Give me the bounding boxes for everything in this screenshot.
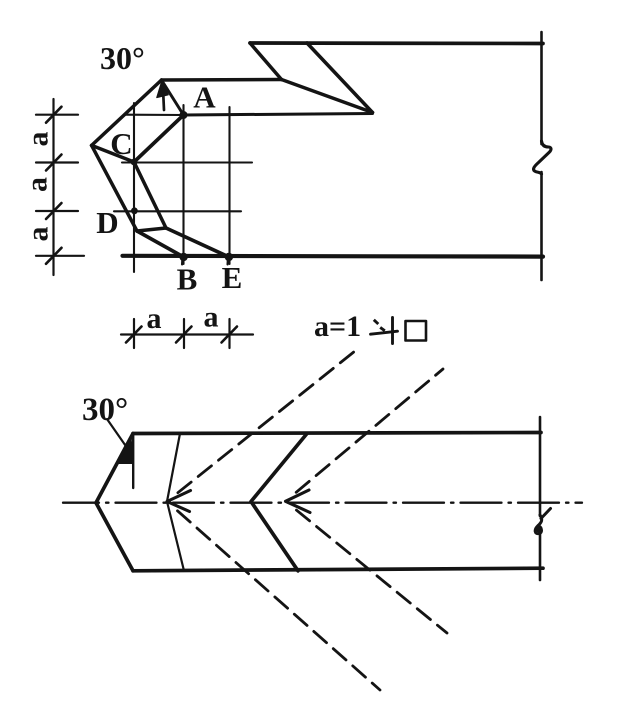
bottom dim tick 3 [222,319,238,348]
vertical grid line 1 [133,103,135,272]
top edge (plan) [133,433,541,434]
break mark on right edge (plan) [535,509,550,534]
notch diagonal L3 [307,43,373,113]
node A [180,111,188,119]
svg-text:A: A [193,80,216,115]
arrow head 2 on centre line [286,490,311,513]
inner vertical at bevel [132,434,134,489]
bottom dimension line [121,333,253,335]
character kou [406,321,427,341]
connector P1 to P2 [137,228,166,231]
arrow head 1 on centre line [167,491,191,512]
dashed ray 1 (up-right from arrow 1) [178,347,360,493]
svg-text:30°: 30° [100,40,145,76]
bottom edge (plan) [133,568,543,571]
horizontal grid line 1 [124,114,183,116]
notch diagonal L1 [250,43,282,80]
diagonal A to C [134,115,184,162]
stub below E [226,257,229,265]
character dou [371,318,398,344]
right edge (plan) [539,417,542,580]
right edge of beam [540,32,543,280]
dashed ray 2 (up-right from arrow 2) [296,369,443,492]
svg-text:a=1: a=1 [314,310,361,343]
dashed ray 4 (down-right from arrow 2) [296,510,447,633]
profile P1 to B [137,231,184,257]
svg-text:a: a [204,301,219,334]
break mark on right edge (top figure) [534,141,552,174]
vertical grid line 2 [182,105,184,264]
arrow pointing up at apex [157,81,168,111]
bottom dim tick 1 [126,319,142,348]
stub below B [181,257,184,265]
svg-text:C: C [110,126,132,161]
profile P2 to E [166,228,229,257]
left dimension line [52,99,54,275]
outer steep profile line to P1 [92,145,137,231]
svg-text:E: E [222,260,243,295]
inner steep line C to P2 [134,162,166,228]
node E [225,253,233,261]
upper left slope (plan) [96,434,133,503]
vertical grid line 3 [228,107,230,264]
svg-text:a: a [21,177,54,192]
filled 30 degree wedge [119,437,134,464]
node D [131,207,138,214]
svg-text:B: B [177,262,198,297]
bottom dim tick 2 [176,319,192,348]
svg-text:30°: 30° [82,392,128,428]
leader line for 30 degrees [107,419,127,447]
thin chevron 1 [167,434,184,571]
centre line (dash-dot) [63,502,582,504]
left dim tick 2 [36,155,78,171]
notch diagonal L2 [282,80,373,113]
dashed ray 3 (down-right from arrow 1) [178,511,381,690]
horizontal grid line 2 [122,161,252,163]
svg-text:a: a [22,132,55,147]
node B [179,253,187,261]
svg-text:D: D [96,205,118,240]
left dim tick 1 [36,107,78,123]
apex horizontal line [162,78,282,82]
top edge of beam [250,41,543,45]
svg-text:a: a [147,302,162,335]
profile left vertex to C [92,145,134,162]
line A to notch point [184,114,373,116]
left dim tick 4 [36,248,84,264]
30 degree slope line apex to left vertex [92,80,162,145]
horizontal grid line 3 [114,210,241,212]
thick chevron 2 [251,434,307,571]
lower left slope (plan) [96,503,133,571]
left dim tick 3 [36,203,78,219]
svg-text:a: a [22,227,55,242]
bottom edge of beam [123,254,544,259]
node C [131,159,138,166]
diagonal apex to A [162,80,184,115]
